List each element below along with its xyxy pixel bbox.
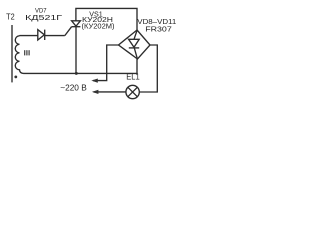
thyristor VS1 [72,21,81,74]
svg-text:FR307: FR307 [145,24,172,33]
svg-text:КД521Г: КД521Г [25,13,62,22]
svg-text:EL1: EL1 [126,73,140,82]
top wire [76,8,137,30]
svg-text:~220 В: ~220 В [60,83,87,93]
wire diode VD7 to gate [45,35,65,37]
winding III label [24,50,30,55]
mains upper arrow [91,79,98,83]
mains lower arrow [92,90,99,94]
mains lower arrow wire from lamp [94,91,126,93]
bottom wire [24,59,138,73]
svg-text:(КУ202М): (КУ202М) [82,21,115,30]
diode VD7 [38,30,45,40]
lamp EL1 [126,85,139,98]
transformer T2 core [11,25,13,82]
svg-text:T2: T2 [6,13,15,22]
winding start dot [14,76,17,79]
transformer T2 winding III [15,36,23,74]
wire lamp to bridge right vertex [139,45,157,92]
bridge left vertex wire to mains [93,45,119,81]
bridge inner diode [129,31,140,59]
wire winding top to diode VD7 [20,35,38,37]
bridge VD8-VD11 diamond [119,30,151,59]
junction dot thyristor cathode / bottom wire [75,72,78,75]
gate wire diagonal [65,27,72,36]
